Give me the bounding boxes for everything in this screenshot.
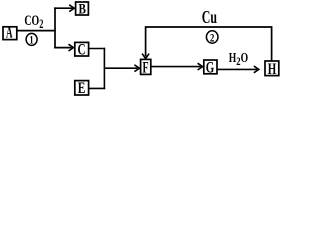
svg-text:F: F [142,58,148,76]
wire to B [54,7,72,9]
box F [141,58,151,76]
box H [265,60,279,77]
wire E to bracket [89,87,106,89]
wire C to bracket [89,48,106,50]
arrow G to H [218,68,257,70]
svg-text:C: C [77,41,85,58]
svg-text:H: H [268,60,277,77]
svg-text:B: B [79,0,87,17]
circled 1 [26,33,37,47]
svg-text:1: 1 [29,34,33,47]
arrow F to G [151,66,201,68]
box A [3,23,17,42]
box C [75,41,89,58]
box E [75,79,89,96]
branch line vertical [54,7,56,48]
box B [76,0,89,17]
svg-text:2: 2 [210,32,214,45]
box G [204,58,217,75]
arrow bracket to F [104,67,137,69]
arrowhead into F [142,54,149,59]
svg-text:Cu: Cu [202,8,218,28]
svg-text:A: A [6,23,13,42]
Cu line top [146,27,272,61]
bracket vertical [103,48,105,89]
svg-text:E: E [78,79,86,96]
svg-text:G: G [206,58,215,75]
wire A to branch [17,30,56,32]
circled 2 [206,31,218,45]
wire to C [54,47,72,49]
